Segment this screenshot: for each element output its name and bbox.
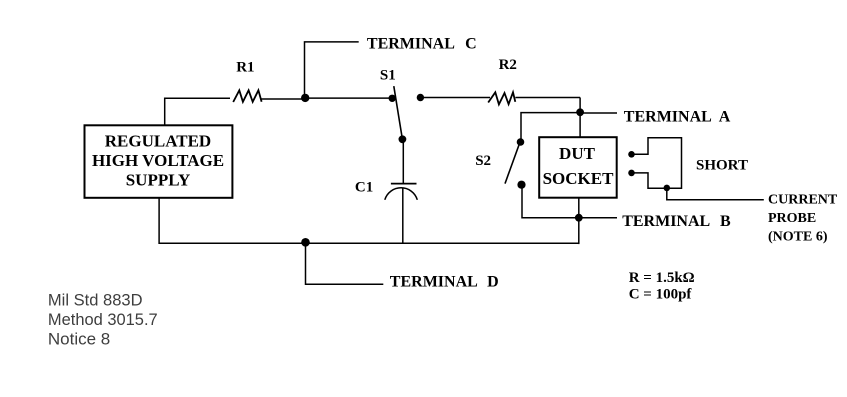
- svg-text:B: B: [720, 213, 731, 230]
- svg-text:R1: R1: [236, 60, 254, 76]
- wire terminal B node down to bottom rail: [578, 218, 580, 244]
- svg-text:R = 1.5kΩ: R = 1.5kΩ: [629, 270, 695, 286]
- svg-text:C = 100pf: C = 100pf: [629, 287, 693, 303]
- svg-text:HIGH VOLTAGE: HIGH VOLTAGE: [92, 151, 224, 170]
- wire S2 bottom to terminal B node: [522, 185, 579, 218]
- svg-text:S2: S2: [475, 153, 491, 169]
- wire node down to DUT socket top: [579, 112, 581, 137]
- svg-text:DUT: DUT: [559, 144, 596, 163]
- svg-text:D: D: [487, 274, 499, 291]
- switch S2: [475, 138, 525, 189]
- wire to terminal C: [305, 42, 359, 98]
- svg-text:C: C: [465, 36, 477, 53]
- resistor R1: [233, 60, 261, 102]
- DUT socket pin B (short, bottom): [628, 170, 635, 177]
- svg-text:SUPPLY: SUPPLY: [126, 171, 191, 190]
- svg-text:TERMINAL: TERMINAL: [390, 274, 478, 291]
- node junction terminal D: [301, 238, 310, 247]
- wire node to TERMINAL D label: [306, 242, 384, 284]
- svg-text:Method 3015.7: Method 3015.7: [48, 310, 158, 329]
- svg-text:TERMINAL: TERMINAL: [367, 36, 455, 53]
- TERMINAL C label: [367, 36, 477, 53]
- bottom rail wire: [159, 242, 579, 244]
- svg-text:PROBE: PROBE: [768, 211, 816, 226]
- wire to current probe: [667, 188, 764, 200]
- shorting wire loop: [632, 138, 682, 189]
- svg-text:(NOTE 6): (NOTE 6): [768, 230, 828, 245]
- svg-text:REGULATED: REGULATED: [105, 131, 211, 150]
- svg-text:Notice 8: Notice 8: [48, 330, 110, 349]
- TERMINAL A label: [624, 108, 731, 125]
- wire node to S2 top: [521, 113, 580, 140]
- resistor R2: [488, 57, 517, 105]
- svg-text:S1: S1: [380, 68, 396, 84]
- node junction (rail / terminal C): [301, 94, 309, 102]
- capacitor C1 lead from S1: [402, 139, 404, 183]
- node junction terminal A: [576, 108, 584, 116]
- svg-text:CURRENT: CURRENT: [768, 192, 838, 207]
- wire R1 to node: [261, 98, 305, 100]
- switch S1: [380, 68, 424, 144]
- svg-text:SHORT: SHORT: [696, 158, 748, 174]
- wire R2 to terminal A node: [515, 98, 580, 113]
- svg-text:TERMINAL: TERMINAL: [622, 213, 710, 230]
- wire supply top to main rail: [165, 98, 230, 125]
- TERMINAL D label: [390, 274, 499, 291]
- CURRENT PROBE label: [768, 192, 838, 244]
- svg-text:A: A: [719, 108, 731, 125]
- wire supply bottom to bottom rail: [158, 198, 160, 244]
- svg-text:C1: C1: [355, 180, 373, 196]
- wire S1 to R2: [420, 97, 490, 99]
- document reference note: [48, 290, 158, 348]
- node junction current probe: [664, 185, 671, 192]
- wire node to TERMINAL A label: [580, 112, 617, 114]
- wire node to TERMINAL B label: [579, 217, 617, 219]
- svg-text:Mil Std 883D: Mil Std 883D: [48, 290, 143, 309]
- component values note: [629, 270, 695, 302]
- capacitor C1: [355, 180, 417, 244]
- wire node to S1: [305, 97, 390, 99]
- power supply box U1: [85, 125, 233, 198]
- DUT socket box: [539, 137, 617, 198]
- svg-text:R2: R2: [499, 57, 517, 73]
- svg-text:TERMINAL: TERMINAL: [624, 108, 712, 125]
- wire DUT socket bottom to terminal B node: [578, 198, 580, 218]
- TERMINAL B label: [622, 213, 731, 230]
- svg-text:SOCKET: SOCKET: [543, 169, 615, 188]
- node junction terminal B: [575, 214, 583, 222]
- DUT socket pin A (short, top): [628, 151, 635, 158]
